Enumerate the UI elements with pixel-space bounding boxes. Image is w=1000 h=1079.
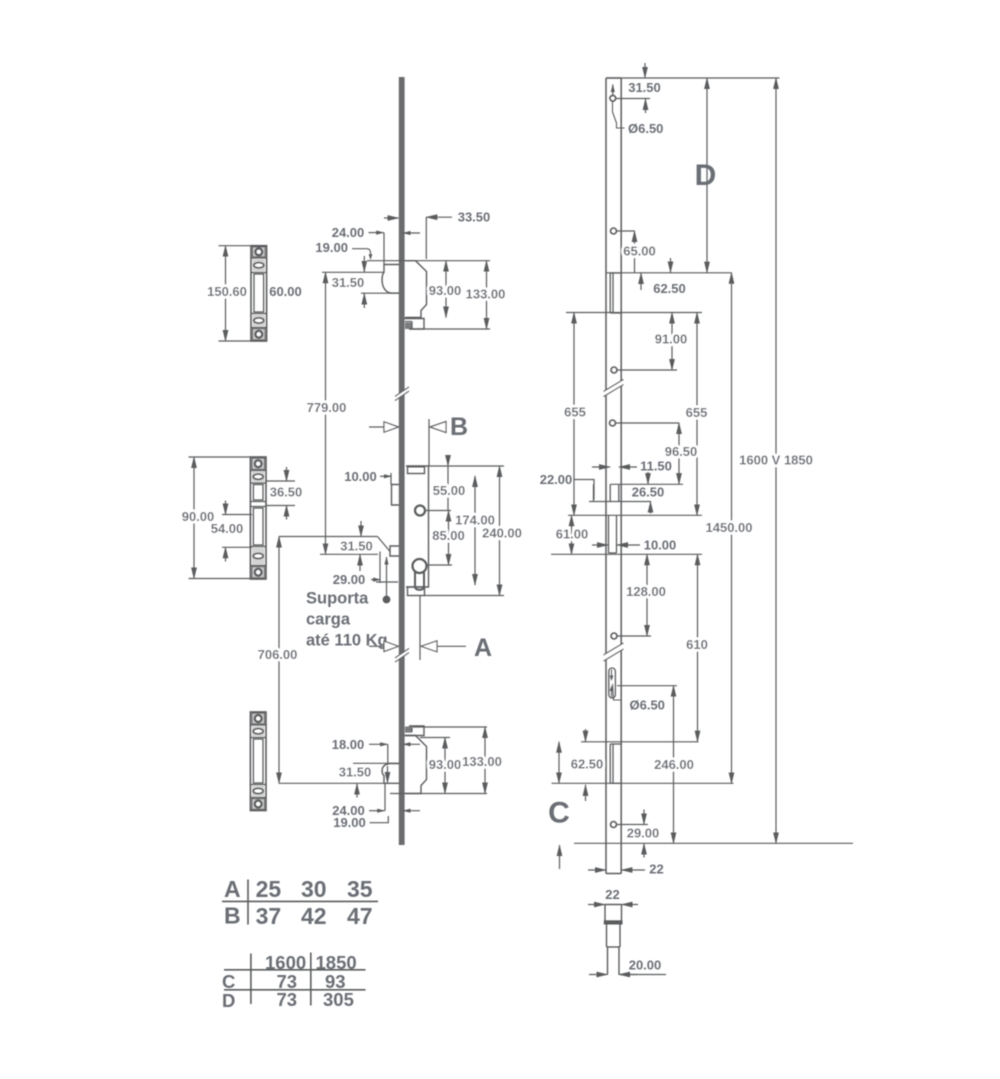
svg-text:62.50: 62.50 bbox=[571, 757, 604, 772]
dim 128.00 bbox=[626, 554, 666, 636]
svg-text:31.50: 31.50 bbox=[339, 765, 372, 780]
strike plate 3 (bottom) bbox=[250, 712, 266, 811]
svg-text:18.00: 18.00 bbox=[332, 737, 365, 752]
dim 246.00 bbox=[654, 686, 694, 844]
dim 150.60 bbox=[207, 246, 251, 341]
svg-text:25: 25 bbox=[256, 876, 282, 902]
screw hole 4 bbox=[610, 420, 680, 426]
dim 655 right bbox=[686, 313, 708, 516]
label Suporta carga ate 110 Kg bbox=[306, 590, 388, 650]
dim 610 bbox=[686, 554, 708, 741]
keep 1 on strip bbox=[610, 273, 621, 313]
top ext line y329 bbox=[409, 328, 490, 330]
svg-text:240.00: 240.00 bbox=[482, 526, 522, 541]
ext line y554 bbox=[551, 553, 702, 555]
dim 36.50 bbox=[266, 467, 302, 520]
middle lock case body bbox=[406, 466, 429, 596]
svg-text:73: 73 bbox=[277, 989, 298, 1010]
ext line y515 bbox=[568, 514, 702, 516]
dim 93.00 bottom bbox=[429, 738, 462, 794]
dim 133.00 top bbox=[466, 261, 506, 329]
dim 29.00 bbox=[333, 552, 381, 588]
rail break mark lower bbox=[395, 649, 409, 663]
bottom hook bolt protruding left bbox=[382, 764, 399, 784]
label 60.00 bbox=[269, 284, 302, 299]
right strip top end bbox=[606, 77, 621, 79]
dim 90.00 bbox=[182, 457, 251, 579]
dim 22.00 bbox=[540, 472, 594, 500]
svg-text:133.00: 133.00 bbox=[466, 287, 506, 302]
dim 96.50 bbox=[665, 423, 698, 484]
dim 22 strip width bbox=[588, 862, 664, 877]
svg-text:93.00: 93.00 bbox=[429, 283, 462, 298]
label C bbox=[548, 797, 570, 830]
bottom hook case foot bbox=[405, 726, 425, 736]
dim 19.00 bottom bbox=[333, 815, 388, 830]
svg-text:31.50: 31.50 bbox=[628, 80, 661, 95]
top hook case foot bbox=[405, 319, 425, 330]
svg-text:90.00: 90.00 bbox=[182, 509, 215, 524]
strip break mark upper bbox=[604, 380, 624, 397]
dim 62.50 top bbox=[641, 273, 686, 296]
dim 706.00 bbox=[258, 537, 298, 784]
ext line y742 bbox=[581, 729, 699, 742]
dim 18.00 bbox=[332, 737, 420, 765]
svg-text:B: B bbox=[450, 413, 468, 441]
bottom ext line y793 bbox=[390, 793, 487, 795]
ext line y686 bbox=[617, 685, 677, 687]
dim D bbox=[695, 78, 717, 273]
top hook bolt protruding left of rail bbox=[382, 265, 399, 294]
svg-text:128.00: 128.00 bbox=[626, 584, 666, 599]
svg-text:55.00: 55.00 bbox=[433, 483, 466, 498]
svg-text:Ø6.50: Ø6.50 bbox=[630, 698, 665, 713]
dim 31.50 strip bbox=[616, 63, 661, 113]
dim 61.00 bbox=[556, 515, 589, 554]
ext line case top bbox=[429, 465, 505, 467]
dim 24.00 top bbox=[332, 225, 420, 265]
svg-text:246.00: 246.00 bbox=[654, 757, 694, 772]
svg-text:19.00: 19.00 bbox=[333, 815, 366, 830]
svg-text:60.00: 60.00 bbox=[269, 284, 302, 299]
svg-text:85.00: 85.00 bbox=[432, 528, 465, 543]
cylinder leader bbox=[427, 564, 452, 566]
svg-text:30: 30 bbox=[301, 876, 327, 902]
dim 93.00 top bbox=[429, 261, 462, 318]
svg-text:35: 35 bbox=[347, 876, 373, 902]
strip break mark lower bbox=[604, 643, 624, 661]
svg-text:22: 22 bbox=[605, 887, 619, 902]
dim 33.50 bbox=[384, 210, 490, 260]
screw hole 5 bbox=[611, 633, 651, 639]
svg-text:655: 655 bbox=[564, 405, 586, 420]
svg-text:93.00: 93.00 bbox=[429, 757, 462, 772]
hook slot on strip bbox=[609, 668, 616, 698]
svg-text:96.50: 96.50 bbox=[665, 444, 698, 459]
euro cylinder bbox=[413, 559, 427, 590]
strike plate 2 (middle) bbox=[250, 457, 266, 579]
dim 10.00 right bbox=[592, 538, 676, 553]
deadbolt hook notch bbox=[376, 546, 399, 582]
leader Suporta carga bbox=[383, 557, 390, 603]
svg-text:22.00: 22.00 bbox=[540, 472, 573, 487]
svg-text:26.50: 26.50 bbox=[632, 485, 665, 500]
dim 11.50 bbox=[592, 459, 672, 474]
svg-text:62.50: 62.50 bbox=[653, 281, 686, 296]
ext line y312 bbox=[566, 312, 702, 314]
main faceplate rail (left drawing) bbox=[399, 77, 405, 845]
ext line y843 bbox=[574, 842, 853, 844]
dim 174.00 bbox=[455, 476, 495, 585]
svg-text:D: D bbox=[222, 990, 235, 1011]
latch keep on strip bbox=[589, 484, 683, 501]
svg-text:10.00: 10.00 bbox=[644, 538, 677, 553]
dim 1600 V 1850 bbox=[739, 78, 813, 843]
right strip left edge bbox=[605, 78, 607, 874]
screw hole 1 bbox=[610, 85, 616, 102]
svg-text:36.50: 36.50 bbox=[270, 485, 303, 500]
dim 31.50 top hook bbox=[322, 256, 399, 308]
svg-text:91.00: 91.00 bbox=[655, 332, 688, 347]
dim 22 end cap bbox=[588, 887, 638, 905]
svg-text:29.00: 29.00 bbox=[333, 572, 366, 587]
dim 240.00 bbox=[482, 466, 522, 596]
svg-text:A: A bbox=[224, 876, 241, 902]
latch bolt left of rail bbox=[392, 485, 400, 506]
svg-text:19.00: 19.00 bbox=[315, 240, 348, 255]
ext line case bottom bbox=[425, 595, 505, 597]
svg-text:20.00: 20.00 bbox=[629, 958, 662, 973]
label O6.50 bottom bbox=[613, 684, 665, 713]
keep 2 on strip bbox=[609, 515, 617, 553]
dim 19.00 top bbox=[315, 240, 372, 260]
svg-text:655: 655 bbox=[686, 405, 708, 420]
svg-text:29.00: 29.00 bbox=[627, 826, 660, 841]
svg-text:D: D bbox=[695, 159, 717, 192]
svg-text:610: 610 bbox=[686, 637, 708, 652]
dim 31.50 bottom bbox=[279, 763, 399, 797]
svg-text:31.50: 31.50 bbox=[340, 539, 373, 554]
dim A bbox=[369, 596, 492, 663]
dim 20.00 bbox=[589, 958, 666, 975]
svg-text:33.50: 33.50 bbox=[458, 210, 491, 225]
dim 779.00 bbox=[307, 272, 347, 554]
dim 65.00 bbox=[617, 231, 671, 273]
bottom ext line y727 bbox=[413, 726, 487, 728]
svg-text:779.00: 779.00 bbox=[307, 400, 347, 415]
strike plate 1 (top) bbox=[251, 246, 267, 341]
table A B bbox=[222, 876, 378, 929]
label 26.50 bbox=[632, 472, 665, 514]
dim 1450.00 bbox=[706, 273, 753, 784]
svg-text:24.00: 24.00 bbox=[332, 225, 365, 240]
right top ext line bbox=[606, 77, 780, 79]
svg-text:10.00: 10.00 bbox=[344, 469, 377, 484]
svg-text:Suporta: Suporta bbox=[306, 590, 369, 608]
dim 91.00 bbox=[655, 313, 688, 371]
dim C arrows bbox=[560, 785, 586, 869]
svg-text:Ø6.50: Ø6.50 bbox=[628, 121, 663, 136]
svg-text:11.50: 11.50 bbox=[640, 459, 672, 474]
rail break mark upper bbox=[395, 387, 409, 401]
svg-text:A: A bbox=[474, 634, 492, 662]
dim 62.50 bottom bbox=[559, 742, 603, 784]
svg-text:150.60: 150.60 bbox=[207, 284, 247, 299]
svg-text:54.00: 54.00 bbox=[211, 521, 244, 536]
table C D 1600 1850 bbox=[222, 952, 366, 1011]
right strip bottom end bbox=[606, 873, 621, 875]
svg-text:65.00: 65.00 bbox=[623, 244, 656, 259]
svg-text:carga: carga bbox=[306, 611, 351, 629]
dim 54.00 bbox=[211, 501, 252, 562]
ext line y273 bbox=[606, 272, 732, 274]
svg-text:42: 42 bbox=[301, 903, 327, 929]
dim 655 left bbox=[564, 313, 586, 516]
svg-text:37: 37 bbox=[256, 903, 282, 929]
svg-text:22: 22 bbox=[649, 862, 663, 877]
dim 85.00 bbox=[432, 511, 465, 566]
top ext line y261 bbox=[367, 260, 490, 262]
svg-text:47: 47 bbox=[347, 903, 373, 929]
dim B bbox=[369, 413, 468, 466]
dim 24.00 bottom bbox=[332, 783, 420, 818]
svg-text:B: B bbox=[224, 903, 241, 929]
dim 133.00 bottom bbox=[462, 727, 502, 794]
svg-text:305: 305 bbox=[323, 989, 354, 1010]
svg-text:1450.00: 1450.00 bbox=[706, 520, 753, 535]
handle spindle hub bbox=[415, 506, 451, 516]
screw hole 2 bbox=[611, 228, 617, 234]
svg-text:C: C bbox=[222, 971, 235, 992]
dim 10.00 left bbox=[344, 469, 391, 485]
dim 55.00 bbox=[433, 455, 466, 511]
end cap body bbox=[604, 905, 623, 975]
ext line y783 bbox=[552, 782, 734, 784]
keep 3 on strip bbox=[610, 744, 621, 783]
label O6.50 top bbox=[613, 102, 664, 137]
right strip right edge bbox=[620, 78, 622, 874]
svg-text:133.00: 133.00 bbox=[462, 754, 502, 769]
svg-text:31.50: 31.50 bbox=[332, 275, 365, 290]
top hook case body bbox=[405, 261, 427, 318]
svg-text:C: C bbox=[548, 797, 570, 830]
bottom hook case body bbox=[405, 736, 427, 794]
svg-text:706.00: 706.00 bbox=[258, 647, 298, 662]
screw hole 6 bbox=[611, 822, 617, 828]
svg-text:1600 V 1850: 1600 V 1850 bbox=[739, 453, 813, 468]
svg-text:61.00: 61.00 bbox=[556, 527, 589, 542]
dim 31.50 middle bbox=[279, 521, 390, 571]
screw hole 3 bbox=[611, 367, 677, 373]
bottom ext line y737 bbox=[420, 737, 450, 739]
dim 29.00 right bbox=[617, 810, 659, 858]
